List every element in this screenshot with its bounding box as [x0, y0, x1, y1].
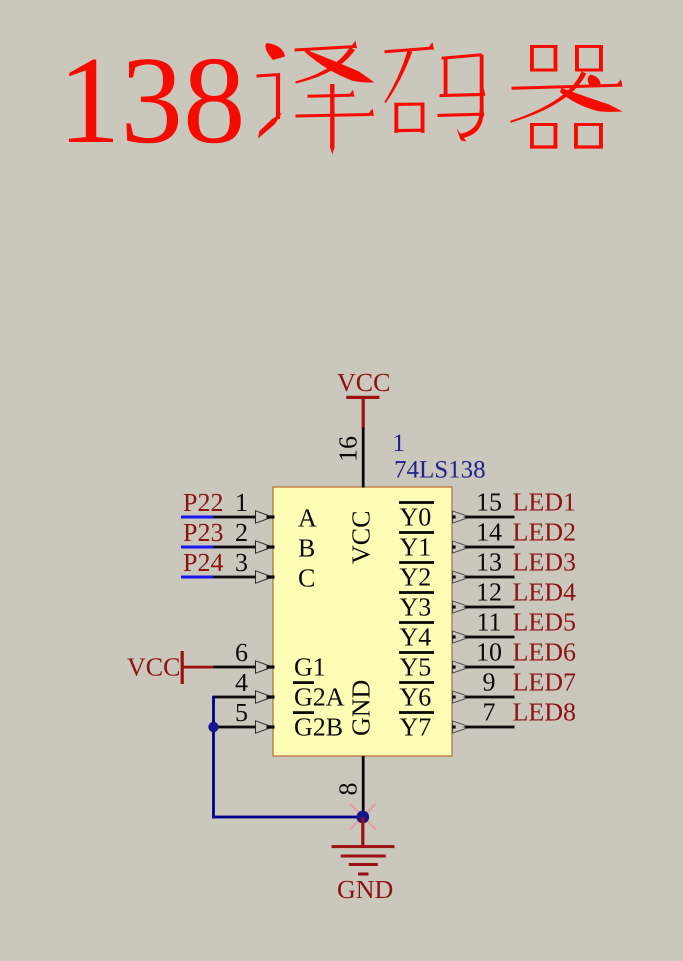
svg-text:Y5: Y5: [400, 653, 432, 682]
wire pin 9: [467, 696, 515, 699]
svg-text:11: 11: [476, 608, 501, 637]
svg-text:C: C: [298, 564, 315, 593]
svg-text:P22: P22: [183, 488, 223, 517]
svg-text:13: 13: [476, 548, 502, 577]
pin name Y0 with overbar: [399, 501, 434, 504]
wire pin 10: [467, 666, 515, 669]
svg-text:Y4: Y4: [400, 623, 432, 652]
svg-text:Y6: Y6: [400, 683, 432, 712]
wire GND red stem: [361, 817, 364, 846]
wire pin 2: [214, 546, 257, 549]
wire navy horizontal to ground node: [212, 816, 364, 819]
svg-text:16: 16: [334, 436, 363, 462]
svg-text:138: 138: [58, 32, 246, 170]
wire net P24 (blue stub): [181, 576, 214, 579]
wire pin 8: [362, 756, 365, 818]
wire pin 11: [467, 636, 515, 639]
pin 7 arrow: [453, 721, 471, 733]
svg-text:LED2: LED2: [513, 518, 577, 547]
svg-text:LED7: LED7: [513, 668, 577, 697]
svg-text:P24: P24: [183, 548, 223, 577]
title glyph 译: [257, 41, 375, 155]
pin name Y4 with overbar: [399, 621, 434, 624]
svg-text:Y0: Y0: [400, 503, 432, 532]
svg-text:Y2: Y2: [400, 563, 432, 592]
svg-text:74LS138: 74LS138: [394, 457, 486, 484]
pin 5 arrow: [256, 721, 273, 733]
wire pin 5: [214, 726, 257, 729]
pin name Y6 with overbar: [399, 681, 434, 684]
wire pin 12: [467, 606, 515, 609]
svg-text:A: A: [298, 504, 317, 533]
svg-text:B: B: [298, 534, 315, 563]
svg-text:14: 14: [476, 518, 502, 547]
pin 2 arrow: [256, 541, 273, 553]
svg-text:Y1: Y1: [400, 533, 432, 562]
pin name Y5 with overbar: [399, 651, 434, 654]
pin 12 arrow: [453, 601, 471, 613]
pin name Y2 with overbar: [399, 561, 434, 564]
power symbol VCC at pin 6: [181, 651, 184, 684]
svg-text:LED6: LED6: [513, 638, 577, 667]
IC body U1 74LS138: [273, 487, 452, 756]
svg-text:3: 3: [235, 548, 248, 577]
pin 4 arrow: [256, 691, 273, 703]
wire pin 16: [362, 428, 365, 488]
wire pin 7: [467, 726, 515, 729]
pin 13 arrow: [453, 571, 471, 583]
pin 14 arrow: [453, 541, 471, 553]
svg-text:LED3: LED3: [513, 548, 577, 577]
wire pin 13: [467, 576, 515, 579]
cross mark at ground junction: [350, 804, 376, 830]
junction dot at ground node: [356, 811, 369, 824]
wire VCC red stem: [362, 398, 365, 429]
wire pin 14: [467, 546, 515, 549]
pin 3 arrow: [256, 571, 273, 583]
svg-text:G2B: G2B: [294, 713, 343, 742]
ground symbol: [332, 845, 395, 875]
svg-text:VCC: VCC: [337, 368, 390, 397]
svg-text:8: 8: [334, 783, 363, 796]
svg-text:P23: P23: [183, 518, 223, 547]
svg-text:1: 1: [235, 488, 248, 517]
wire net P22 (blue stub): [181, 516, 214, 519]
svg-text:2: 2: [235, 518, 248, 547]
title glyph 器: [510, 45, 622, 149]
svg-text:LED1: LED1: [513, 488, 577, 517]
pin name Y1 with overbar: [399, 531, 434, 534]
pin 11 arrow: [453, 631, 471, 643]
svg-text:G2A: G2A: [294, 683, 345, 712]
wire pin 1: [214, 516, 257, 519]
pin 6 arrow: [256, 661, 273, 673]
wire pin 15: [467, 516, 515, 519]
svg-text:VCC: VCC: [347, 511, 376, 564]
wire navy vertical joining pins 4,5 to ground net: [212, 696, 215, 819]
svg-text:7: 7: [483, 698, 496, 727]
svg-text:1: 1: [393, 430, 406, 457]
svg-text:4: 4: [235, 668, 248, 697]
svg-text:LED5: LED5: [513, 608, 577, 637]
svg-text:15: 15: [476, 488, 502, 517]
pin name G2B with overbar on G: [293, 711, 314, 714]
pin name Y7 with overbar: [399, 711, 434, 714]
svg-text:5: 5: [235, 698, 248, 727]
pin 9 arrow: [453, 691, 471, 703]
pin 1 arrow: [256, 511, 273, 523]
svg-text:LED8: LED8: [513, 698, 577, 727]
svg-text:GND: GND: [337, 875, 393, 904]
svg-text:9: 9: [483, 668, 496, 697]
wire pin 3: [214, 576, 257, 579]
pin name G2A with overbar on G: [293, 681, 314, 684]
pin 10 arrow: [453, 661, 471, 673]
svg-text:Y7: Y7: [400, 713, 432, 742]
wire net P23 (blue stub): [181, 546, 214, 549]
junction dot at pin 5: [208, 722, 218, 732]
power symbol VCC bar (top): [346, 396, 379, 399]
title glyph 码: [384, 42, 485, 141]
svg-text:G1: G1: [294, 653, 326, 682]
svg-text:10: 10: [476, 638, 502, 667]
svg-text:GND: GND: [347, 680, 376, 736]
pin name Y3 with overbar: [399, 591, 434, 594]
pin 15 arrow: [453, 511, 471, 523]
wire pin 6: [214, 666, 257, 669]
wire pin 4: [214, 696, 257, 699]
svg-text:LED4: LED4: [513, 578, 577, 607]
svg-text:VCC: VCC: [127, 653, 180, 682]
svg-text:6: 6: [235, 638, 248, 667]
svg-text:Y3: Y3: [400, 593, 432, 622]
svg-text:12: 12: [476, 578, 502, 607]
